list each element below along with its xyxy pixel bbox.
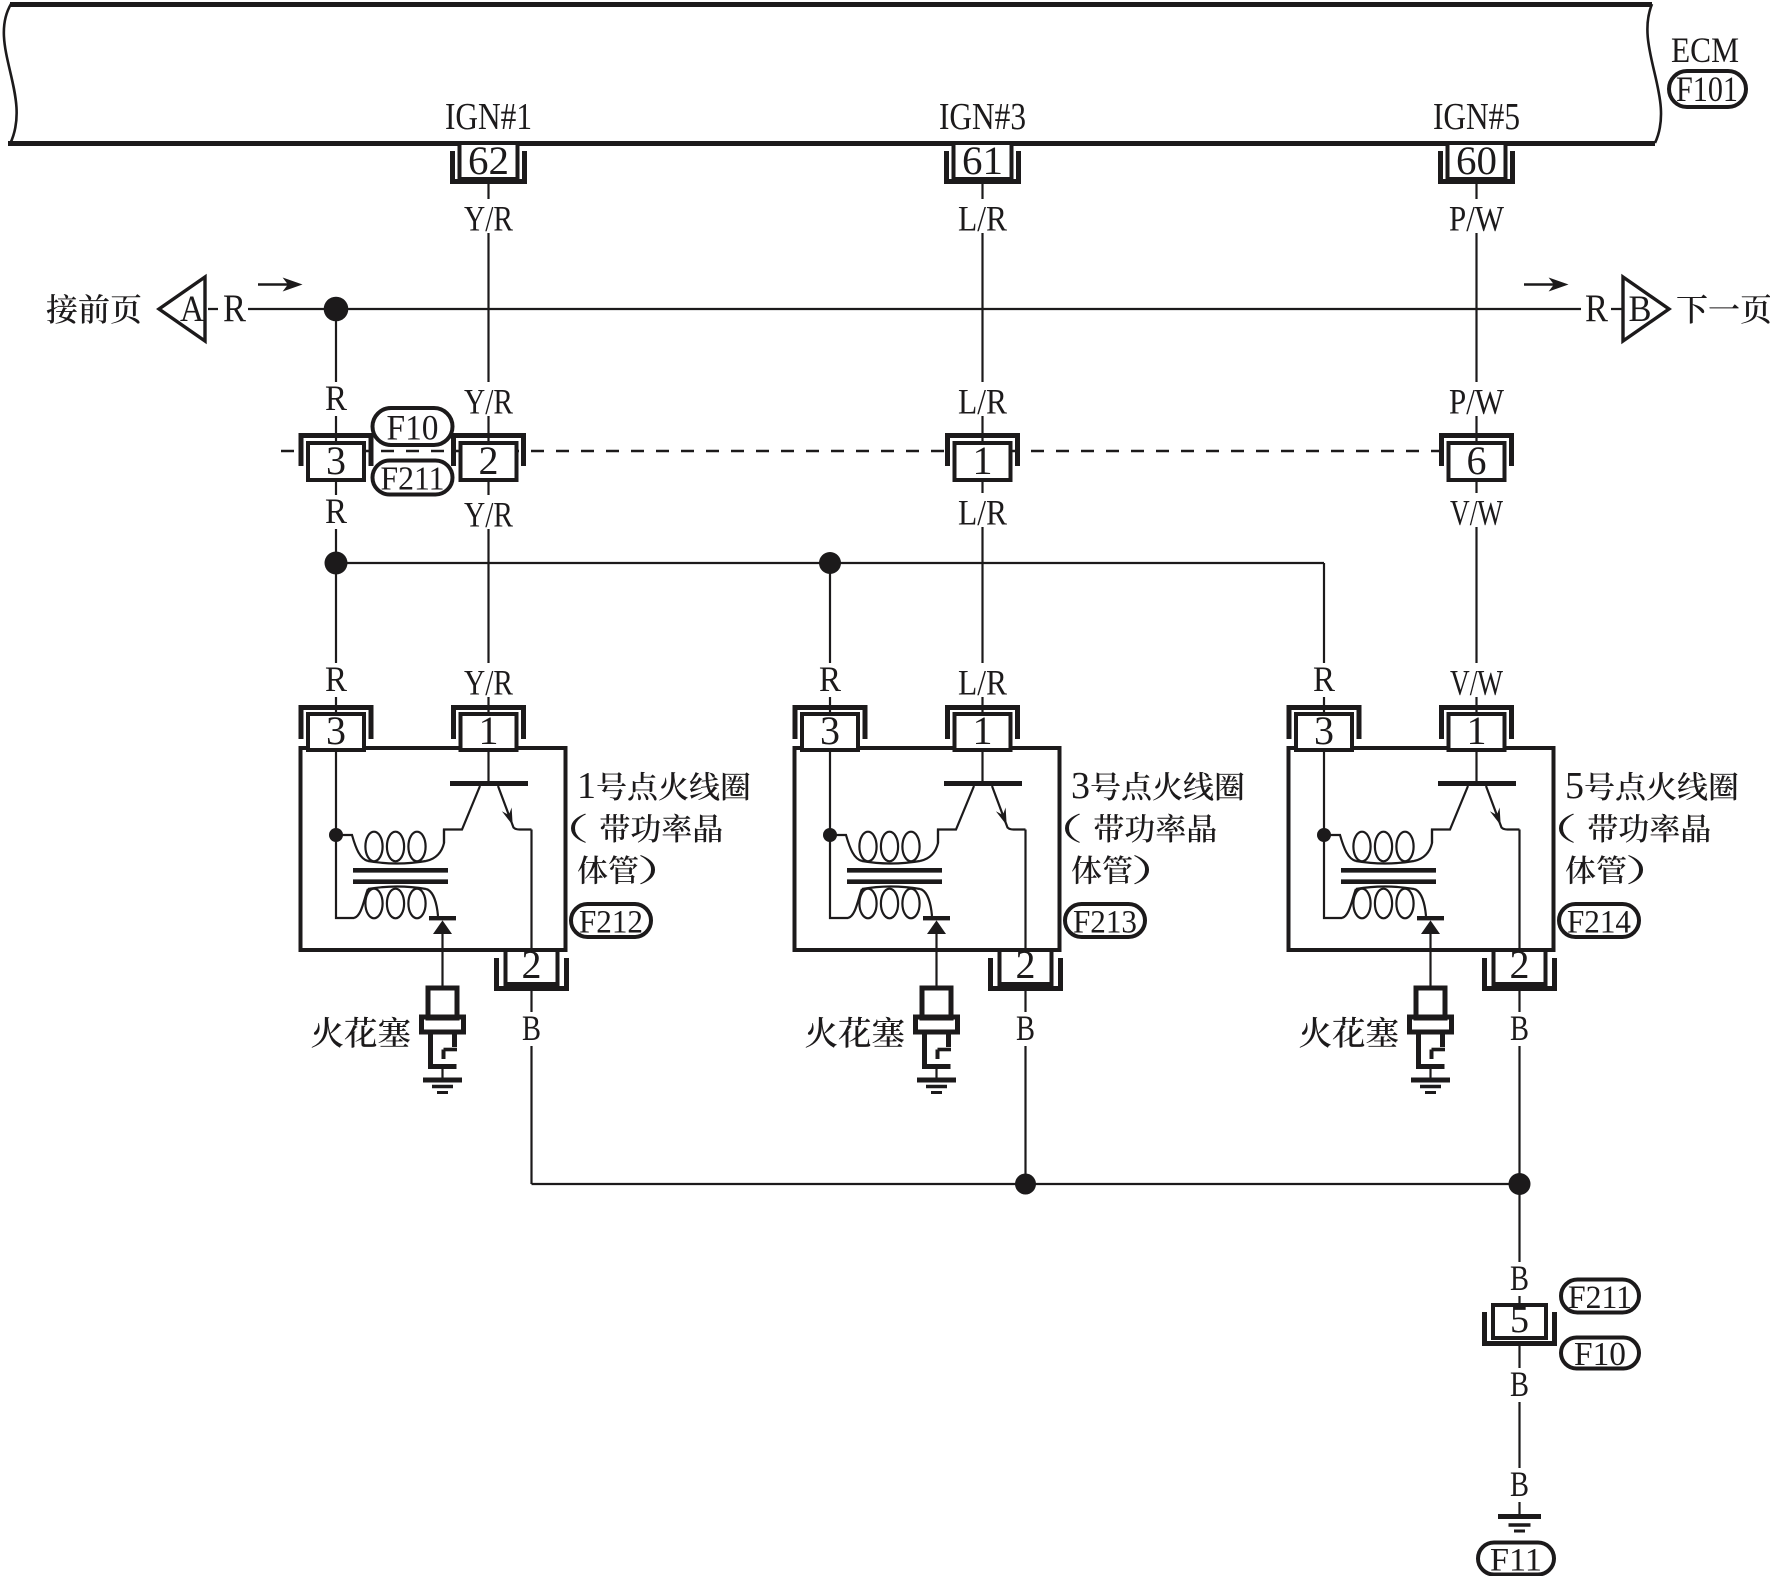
svg-text:R: R (325, 378, 347, 418)
node junction mid bus col 2 (819, 552, 841, 574)
wire label P/W (1443, 199, 1510, 233)
inductor: coil 1 primary winding L1 (336, 830, 444, 864)
svg-text:B: B (1510, 1008, 1529, 1048)
svg-text:L/R: L/R (958, 663, 1007, 703)
inline connector pin 1 (F10/F211) (948, 436, 1018, 484)
wire P/W - V/W: ECM pin 60 down to coil 5 pin 1 (1475, 184, 1477, 714)
inline connector pin 2 (F10/F211) (454, 436, 524, 484)
transistor Q5 emitter arrow (1490, 808, 1501, 826)
wire label P/W (1443, 382, 1510, 416)
spark plug 1 (422, 988, 464, 1078)
wire label Y/R (458, 199, 519, 233)
svg-text:3: 3 (326, 708, 346, 753)
svg-text:2: 2 (1016, 942, 1036, 987)
ECM pin 62 (IGN#1) (453, 138, 525, 183)
wire label R (right bus) (1581, 288, 1611, 328)
svg-text:V/W: V/W (1450, 663, 1503, 703)
label 火花塞 (spark plug 3) (806, 1017, 904, 1048)
off-page connector A (from previous page) (159, 277, 205, 341)
coil 3 pin 3 (R feed) (795, 708, 865, 754)
ground connector label F11 (1478, 1542, 1554, 1576)
svg-text:B: B (1016, 1008, 1035, 1048)
wire B: connector pin 5 down to ground G-F11 (1518, 1346, 1520, 1514)
svg-text:Y/R: Y/R (464, 495, 513, 535)
svg-text:3: 3 (820, 708, 840, 753)
svg-text:F212: F212 (579, 904, 643, 940)
svg-text:60: 60 (1456, 138, 1497, 183)
wire coil 1 diode anode to spark plug (441, 934, 443, 988)
connector label F214 (1559, 904, 1639, 940)
svg-text:1: 1 (1467, 708, 1487, 753)
ECM pin 61 (IGN#3) (947, 138, 1019, 183)
wire label L/R (952, 493, 1013, 527)
spark plug 3 (916, 988, 958, 1078)
wire label R (813, 663, 847, 697)
node junction R bus / coil feed (324, 297, 349, 322)
wire R: mid-bus junction down to coil 3 pin 3 (829, 563, 831, 714)
svg-text:3: 3 (1314, 708, 1334, 753)
node junction ground bus coil 5 (1509, 1173, 1531, 1195)
svg-text:F10: F10 (1574, 1336, 1626, 1373)
connector label F10 (row 2 upper) (373, 407, 453, 447)
svg-text:R: R (819, 659, 841, 699)
svg-text:2: 2 (1510, 942, 1530, 987)
coil 1 pin 1 (signal) (454, 708, 524, 754)
svg-text:F101: F101 (1676, 69, 1738, 109)
svg-text:L/R: L/R (958, 382, 1007, 422)
svg-text:62: 62 (468, 138, 509, 183)
ground G (body ground) (1498, 1517, 1541, 1532)
svg-text:R: R (223, 287, 246, 330)
ignition coil F213 (U3) box (795, 748, 1060, 950)
label 接前页 (to previous page) (47, 294, 141, 324)
off-page connector B (to next page) (1623, 277, 1669, 341)
ignition coil F212 (U1) box (301, 748, 566, 950)
svg-text:Y/R: Y/R (464, 663, 513, 703)
wire coil 3 emitter to pin 2 (1024, 830, 1026, 951)
wire B: coil 3 pin 2 down to ground bus (1024, 988, 1026, 1184)
wire label L/R (952, 199, 1013, 233)
wire R branch bus (mid horizontal) (336, 562, 1324, 564)
wire label L/R (952, 663, 1013, 697)
svg-text:3: 3 (1071, 765, 1090, 807)
diode D3 (secondary HV rectifier) (923, 916, 950, 934)
svg-text:F11: F11 (1490, 1542, 1542, 1576)
wire label Y/R (458, 495, 519, 529)
coil 3 pin 1 (signal) (948, 708, 1018, 754)
transformer core (coil 5) (1341, 870, 1436, 881)
inductor: coil 3 secondary winding L2 (848, 887, 932, 919)
svg-text:3: 3 (326, 438, 346, 483)
svg-text:R: R (1585, 287, 1608, 330)
svg-text:5: 5 (1565, 765, 1584, 807)
wire label V/W (1444, 493, 1509, 527)
connector label F211 (row 2 lower) (373, 461, 453, 498)
svg-text:IGN#1: IGN#1 (445, 96, 532, 138)
svg-text:B: B (1510, 1258, 1529, 1298)
wire label B (1504, 1368, 1535, 1402)
transistor Q3 (power transistor) (938, 750, 1026, 843)
diode D5 (secondary HV rectifier) (1417, 916, 1444, 934)
svg-text:V/W: V/W (1450, 493, 1503, 533)
wire L/R: ECM pin 61 down to coil 3 pin 1 (981, 184, 983, 714)
wire R bus (main horizontal) (208, 308, 1623, 310)
wire coil 5 internal feed (1324, 750, 1342, 918)
flow arrow right (1524, 279, 1567, 291)
svg-text:L/R: L/R (958, 493, 1007, 533)
flow arrow left (258, 279, 301, 291)
node coil 5 primary tap (1317, 828, 1331, 842)
wire coil 1 internal feed (336, 750, 354, 918)
inductor: coil 1 secondary winding L2 (354, 887, 438, 919)
svg-text:R: R (325, 659, 347, 699)
connector label F212 (571, 904, 651, 940)
wire label R (left bus) (218, 288, 248, 328)
spark plug 5 (1410, 988, 1452, 1078)
wire coil 5 diode anode to spark plug (1429, 934, 1431, 988)
svg-text:F211: F211 (381, 461, 445, 498)
ground (spark plug 1) (423, 1080, 462, 1093)
wire coil 1 emitter to pin 2 (530, 830, 532, 951)
node junction ground bus coil 3 (1015, 1174, 1036, 1195)
wire label B (1504, 1262, 1535, 1296)
transformer core (coil 3) (847, 870, 942, 881)
wire B ground bus (bottom horizontal) (532, 1183, 1520, 1185)
svg-text:ECM: ECM (1671, 30, 1739, 70)
inline connector pin 5 (F211/F10) (1485, 1299, 1555, 1344)
connector label F213 (1065, 904, 1145, 940)
svg-text:6: 6 (1467, 438, 1487, 483)
coil 5 pin 1 (signal) (1442, 708, 1512, 754)
transistor Q1 (power transistor) (444, 750, 532, 843)
wire label V/W (1444, 663, 1509, 697)
svg-text:R: R (1313, 659, 1335, 699)
node coil 3 primary tap (823, 828, 837, 842)
wire label B (516, 1012, 547, 1046)
svg-text:P/W: P/W (1449, 199, 1504, 239)
svg-text:IGN#5: IGN#5 (1433, 96, 1520, 138)
wire R: mid-bus corner down to coil 5 pin 3 (1323, 563, 1325, 714)
svg-text:P/W: P/W (1449, 382, 1504, 422)
coil 1 pin 3 (R feed) (301, 708, 371, 754)
connector label F101 (1669, 69, 1746, 109)
inductor: coil 3 primary winding L1 (830, 830, 938, 864)
svg-text:F213: F213 (1073, 904, 1137, 940)
transformer core (coil 1) (353, 870, 448, 881)
svg-text:2: 2 (479, 438, 499, 483)
wire label B (1504, 1468, 1535, 1502)
svg-text:L/R: L/R (958, 199, 1007, 239)
svg-text:B: B (522, 1008, 541, 1048)
svg-text:IGN#3: IGN#3 (939, 96, 1026, 138)
wire label R (1307, 663, 1341, 697)
coil 5 pin 3 (R feed) (1289, 708, 1359, 754)
wire label R (319, 382, 353, 416)
diode D1 (secondary HV rectifier) (429, 916, 456, 934)
value label: 1号点火线圈 (No.1 ignition coil w/ power transistor) (577, 765, 750, 807)
wire label Y/R (458, 663, 519, 697)
connector label F10 (bottom) (1561, 1336, 1639, 1373)
ground (spark plug 5) (1411, 1080, 1450, 1093)
wire coil 3 diode anode to spark plug (935, 934, 937, 988)
wire label Y/R (458, 382, 519, 416)
ground (spark plug 3) (917, 1080, 956, 1093)
svg-text:5: 5 (1510, 1299, 1529, 1341)
value label: 3号点火线圈 (No.3 ignition coil w/ power transistor) (1071, 765, 1244, 807)
inline connector pin 6 (F10/F211) (1442, 436, 1512, 484)
coil 1 pin 2 (ground) (497, 942, 567, 989)
svg-text:B: B (1629, 289, 1652, 330)
label 火花塞 (spark plug 1) (312, 1017, 410, 1048)
wire inline connector mating line (dashed) (281, 450, 1441, 452)
label 下一页 (next page) (1677, 294, 1770, 324)
svg-text:Y/R: Y/R (464, 382, 513, 422)
wire B: coil 1 pin 2 down to ground bus (530, 988, 532, 1184)
transistor Q5 (power transistor) (1432, 750, 1520, 843)
wire coil 3 internal feed (830, 750, 848, 918)
wire label B (1010, 1012, 1041, 1046)
svg-text:1: 1 (479, 708, 499, 753)
ignition coil F214 (U5) box (1289, 748, 1554, 950)
wire coil 5 emitter to pin 2 (1518, 830, 1520, 951)
wire R: bus junction down to coil 1 pin 3 (335, 309, 337, 714)
svg-text:A: A (180, 289, 204, 330)
coil 3 pin 2 (ground) (991, 942, 1061, 989)
connector label F211 (bottom) (1561, 1280, 1639, 1316)
wire label R (319, 663, 353, 697)
wire label B (1504, 1012, 1535, 1046)
svg-text:R: R (325, 491, 347, 531)
svg-text:B: B (1510, 1364, 1529, 1404)
svg-text:2: 2 (522, 942, 542, 987)
ECM pin 60 (IGN#5) (1441, 138, 1513, 183)
inline connector pin 3 (F10/F211) (301, 436, 371, 484)
wire Y/R: ECM pin 62 down to coil 1 pin 1 (487, 184, 489, 714)
transistor Q3 emitter arrow (996, 808, 1007, 826)
svg-text:B: B (1510, 1464, 1529, 1504)
coil 5 pin 2 (ground) (1485, 942, 1555, 989)
svg-text:1: 1 (973, 438, 993, 483)
svg-text:F211: F211 (1568, 1280, 1632, 1316)
svg-text:Y/R: Y/R (464, 199, 513, 239)
wire B: coil 5 pin 2 down to connector pin 5 (1518, 988, 1520, 1305)
svg-text:F214: F214 (1567, 904, 1631, 940)
wire label L/R (952, 382, 1013, 416)
ECM box (torn-edge outline) (4, 4, 1661, 144)
inductor: coil 5 primary winding L1 (1324, 830, 1432, 864)
svg-text:1: 1 (973, 708, 993, 753)
inductor: coil 5 secondary winding L2 (1342, 887, 1426, 919)
label 火花塞 (spark plug 5) (1300, 1017, 1398, 1048)
svg-text:1: 1 (577, 765, 596, 807)
node junction mid bus col 1 (325, 552, 348, 575)
value label: 5号点火线圈 (No.5 ignition coil w/ power transistor) (1565, 765, 1738, 807)
svg-text:F10: F10 (387, 407, 439, 447)
svg-text:61: 61 (962, 138, 1003, 183)
transistor Q1 emitter arrow (502, 808, 513, 826)
node coil 1 primary tap (329, 828, 343, 842)
wire label R (319, 495, 353, 529)
